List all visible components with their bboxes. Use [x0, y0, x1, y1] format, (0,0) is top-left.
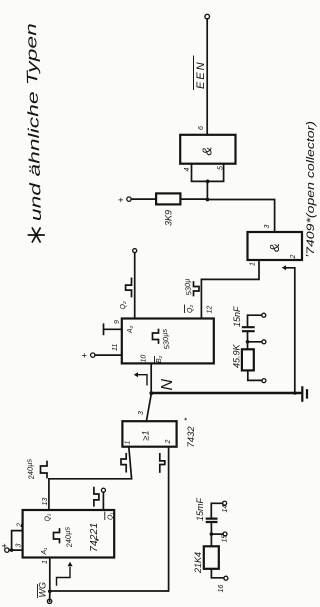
trigger arrow at pin 10 [134, 372, 147, 385]
note: 7409* (open collector) [305, 121, 317, 258]
wire U3 pin10 to node N [149, 363, 153, 395]
pin 2 label [17, 523, 24, 528]
label EEN-bar [194, 56, 208, 90]
wire U3 Q2 (pin 5) to terminal [133, 249, 137, 319]
svg-text:14: 14 [222, 505, 229, 513]
label 7432* [183, 417, 197, 448]
pin 13 label [42, 498, 49, 506]
label pin 11 [112, 344, 119, 351]
svg-text:16: 16 [218, 585, 225, 593]
wire pins2,3 tie [12, 531, 23, 551]
svg-text:&: & [267, 243, 282, 252]
wire 7409b pin 6 to EEN terminal [205, 14, 210, 135]
OR gate U2 7432 [122, 421, 176, 447]
label A1 (pin name) [41, 547, 48, 556]
wire cap right plate to pin14 terminal [211, 501, 226, 518]
label pin 10 [141, 355, 148, 363]
wire cap left plate to junction and pin15 terminal [210, 522, 227, 536]
svg-text:Q₂: Q₂ [120, 301, 127, 309]
svg-text:Q₁: Q₁ [45, 513, 52, 521]
pin 5 label [218, 166, 225, 170]
pulse (negative) at 7432 pin 2 [160, 454, 165, 472]
label WG-bar [38, 582, 48, 598]
resistor 45.9K [232, 343, 254, 370]
svg-text:Q₁: Q₁ [108, 512, 115, 520]
wire WG down to 7432 pin 2 [50, 447, 169, 591]
label N [159, 379, 176, 391]
svg-text:11: 11 [112, 344, 119, 351]
power + terminal at U1 pins 2,3 [0, 543, 13, 552]
pulse (negative) at Q1-bar [94, 488, 99, 506]
label 530u at Q2-bar [182, 278, 193, 296]
label Q2 [120, 301, 127, 309]
label pin 12 [207, 306, 214, 314]
svg-text:5: 5 [218, 166, 225, 170]
monostable U1 74221 (first half) [23, 510, 115, 558]
wire cap left to junction and Rext terminal [246, 331, 266, 344]
svg-text:B₂: B₂ [156, 355, 163, 363]
label pin 16 [218, 585, 225, 593]
trigger arrow at A1 [57, 562, 73, 585]
svg-text:ʼ7409*(open collector): ʼ7409*(open collector) [305, 121, 317, 258]
svg-text:A₂: A₂ [127, 325, 134, 334]
svg-text:13: 13 [42, 498, 49, 506]
pulse at Q2 wire [126, 278, 132, 296]
wire resistor 21K4 left end to pin16 terminal [211, 569, 228, 580]
label 74221 [88, 523, 104, 552]
label pin 14 [222, 505, 229, 513]
label pin 9 [114, 320, 121, 324]
pin 1 label (7409a) [250, 262, 257, 266]
pin 1 label (7432) [125, 441, 132, 445]
svg-text:3: 3 [264, 225, 271, 229]
AND gate U4a 7409 (pins 1,2,3) [248, 232, 303, 260]
svg-text:3K9: 3K9 [164, 210, 174, 226]
label 240us at Q1 wire [24, 458, 36, 481]
capacitor 15nF [232, 306, 254, 331]
svg-text:1: 1 [42, 560, 49, 564]
svg-text:4: 4 [184, 168, 191, 172]
wire 7409a pin 3 to pull-up node [209, 200, 274, 233]
ground symbol at N rail [302, 387, 307, 400]
AND gate U4b 7409 (pins 4,5,6) [180, 135, 235, 164]
svg-text:7432: 7432 [186, 426, 197, 448]
wire N rail to gate 7409 pin 2 (trigger arrow) [282, 265, 297, 395]
label B2-bar [155, 355, 164, 363]
pulse at Q1 wire corner [41, 462, 48, 478]
svg-text:N: N [159, 379, 176, 391]
svg-text:1: 1 [250, 262, 257, 266]
svg-text:+: + [116, 197, 126, 202]
wire U1 Q1-bar to terminal [101, 488, 105, 510]
wire junction to resistor 45.9K [247, 342, 249, 350]
power + terminal at 3K9 [116, 197, 131, 203]
svg-text:45.9K: 45.9K [232, 343, 242, 368]
label Q2-bar [185, 305, 195, 313]
pin 1 label [42, 560, 49, 564]
svg-text:15nF: 15nF [232, 306, 242, 327]
wire junction to resistor 21K4 right end [210, 534, 212, 546]
wires pins 4,5 tie to node [192, 164, 224, 182]
pin 2 label (7409a) [290, 255, 297, 260]
svg-text:WG: WG [38, 582, 48, 598]
pulse at 7432 pin 1 [121, 454, 126, 472]
label A2 (pin name) [127, 325, 134, 334]
pin 6 label [198, 126, 205, 130]
svg-text:15: 15 [222, 535, 229, 543]
pin 4 label [184, 168, 191, 172]
monostable U3 74221 (second half) [122, 319, 214, 364]
svg-text:21K4: 21K4 [193, 552, 203, 574]
wire 7432 pin3 to node N [146, 393, 151, 421]
svg-text:3: 3 [16, 544, 23, 548]
pin 3 label (7409a) [264, 225, 271, 229]
pin 3 label [16, 544, 23, 548]
svg-text:EEN: EEN [195, 60, 207, 89]
node pull-up junction [206, 180, 210, 202]
svg-text:3: 3 [138, 411, 145, 415]
label Q1-bar (pin name) [105, 512, 115, 520]
wire cap to Cext terminal [248, 313, 266, 327]
wire resistor 45.9K to terminal [248, 370, 266, 382]
wire U1 pin13 Q1 to 7432 pin 1 [49, 447, 132, 510]
pin 2 label (7432) [165, 440, 172, 445]
svg-text:Q₂: Q₂ [187, 305, 194, 313]
svg-text:10: 10 [141, 355, 148, 363]
label Q1 (pin name) [45, 513, 52, 521]
svg-text:12: 12 [207, 306, 214, 314]
svg-text:+: + [80, 353, 90, 358]
capacitor 15mF [195, 497, 216, 522]
svg-text:6: 6 [198, 126, 205, 130]
svg-text:≥1: ≥1 [141, 431, 151, 441]
ground tick at pin 9 [104, 324, 122, 334]
resistor 3K9 pull-up [131, 193, 207, 226]
svg-text:9: 9 [114, 320, 121, 324]
svg-text:2: 2 [165, 440, 172, 445]
svg-text:15mF: 15mF [195, 497, 205, 521]
wire WG to A1 pin 1 [49, 558, 51, 592]
svg-text:A₁: A₁ [41, 547, 48, 556]
resistor 21K4 [193, 546, 219, 574]
svg-text:&: & [200, 147, 215, 156]
svg-text:74221: 74221 [88, 523, 100, 552]
pulse 240us inside U1 [54, 526, 75, 549]
svg-text:2: 2 [290, 255, 297, 260]
label pin 15 [222, 535, 229, 543]
svg-text:2: 2 [17, 523, 24, 528]
note: * und aehnliche Typen [23, 23, 45, 242]
pulse (negative) at Q2-bar wire [194, 282, 200, 296]
pulse 530us inside U3 [153, 328, 172, 350]
svg-text:1: 1 [125, 441, 132, 445]
power + terminal at pin 11 [80, 353, 122, 358]
terminal WG-bar [47, 590, 51, 604]
pin 3 label (7432) [138, 411, 145, 415]
node N rail [151, 392, 300, 395]
wire U3 Q2-bar (pin 12) to gate 7409 pin 1 [201, 260, 259, 319]
